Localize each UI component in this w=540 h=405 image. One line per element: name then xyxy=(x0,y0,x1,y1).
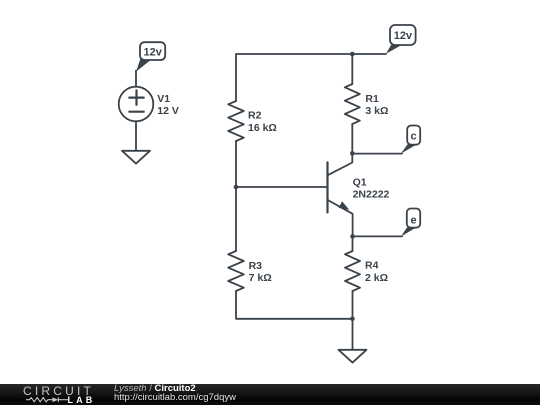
label R4 value xyxy=(365,260,388,285)
svg-text:3 kΩ: 3 kΩ xyxy=(365,105,388,117)
footer url text xyxy=(114,392,236,403)
svg-text:12 V: 12 V xyxy=(157,105,179,117)
net flag 12v (top right) xyxy=(386,25,416,54)
junction dot (top rail / R1) xyxy=(350,52,355,57)
label R3 value xyxy=(249,260,272,284)
wire R4 bottom lead xyxy=(352,291,354,319)
transistor Q1 xyxy=(328,153,353,236)
junction dot (emitter node) xyxy=(350,234,355,239)
wire top rail (R2 top to 12v flag) xyxy=(236,54,386,101)
footer bar xyxy=(0,384,540,405)
svg-text:R1: R1 xyxy=(365,93,379,105)
svg-text:7 kΩ: 7 kΩ xyxy=(249,272,272,284)
ground (bottom right) xyxy=(339,350,367,363)
svg-text:2N2222: 2N2222 xyxy=(353,189,390,201)
resistor R3 xyxy=(228,251,244,291)
footer title text xyxy=(114,383,196,394)
wire V1 bottom xyxy=(135,121,137,150)
svg-text:V1: V1 xyxy=(157,93,170,105)
svg-text:e: e xyxy=(411,214,417,226)
junction dot (base node) xyxy=(234,185,239,190)
voltage source V1 xyxy=(119,87,154,122)
svg-text:R4: R4 xyxy=(365,260,379,272)
CircuitLab logo LAB xyxy=(68,395,96,405)
svg-text:c: c xyxy=(411,131,417,143)
resistor R2 xyxy=(228,101,244,141)
wire collector to flag c xyxy=(352,153,402,155)
net flag e xyxy=(401,209,420,237)
wire bottom rail (R3 bottom to R4 bottom) xyxy=(236,291,352,319)
label Q1 value xyxy=(353,176,390,200)
svg-text:2 kΩ: 2 kΩ xyxy=(365,272,388,284)
svg-text:Q1: Q1 xyxy=(353,176,367,188)
label R2 value xyxy=(248,110,277,134)
wire V1 top xyxy=(135,71,137,87)
wire ground stub xyxy=(352,319,354,350)
wire emitter to flag e xyxy=(353,235,402,237)
svg-text:R2: R2 xyxy=(248,110,262,122)
wire base xyxy=(236,186,328,188)
net flag c xyxy=(401,126,420,154)
svg-text:12v: 12v xyxy=(394,30,413,42)
ground (left, under V1) xyxy=(122,151,150,164)
resistor R4 xyxy=(345,251,360,291)
wire R4 top lead xyxy=(352,236,354,251)
junction dot (collector node) xyxy=(350,151,355,156)
CircuitLab logo CIRCUIT xyxy=(23,384,94,398)
label V1 value xyxy=(157,93,179,117)
resistor R1 xyxy=(345,84,360,124)
net flag 12v (above V1) xyxy=(136,42,165,71)
junction dot (bottom rail / ground) xyxy=(350,317,355,322)
svg-text:12v: 12v xyxy=(144,46,163,58)
wire R1 top lead xyxy=(351,54,353,84)
label R1 value xyxy=(365,93,388,117)
svg-text:R3: R3 xyxy=(249,260,263,272)
wire R1 bottom lead xyxy=(351,124,353,153)
CircuitLab logo resistor-diode glyph xyxy=(26,395,69,405)
svg-text:16 kΩ: 16 kΩ xyxy=(248,122,277,134)
wire mid branch (R2 bottom to R3 top) xyxy=(235,141,237,251)
